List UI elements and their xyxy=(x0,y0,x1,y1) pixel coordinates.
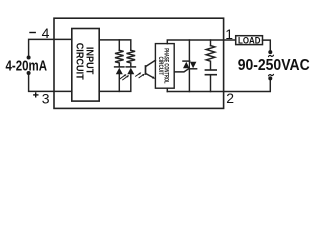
svg-text:CIRCUIT: CIRCUIT xyxy=(157,57,163,76)
svg-text:4-20mA: 4-20mA xyxy=(6,58,48,75)
svg-text:4: 4 xyxy=(42,25,50,41)
svg-text:1: 1 xyxy=(225,26,233,42)
svg-text:2: 2 xyxy=(226,90,234,106)
svg-text:3: 3 xyxy=(42,90,50,106)
svg-text:CIRCUIT: CIRCUIT xyxy=(73,43,84,80)
svg-text:LOAD: LOAD xyxy=(238,35,261,45)
svg-text:90-250VAC: 90-250VAC xyxy=(238,57,310,74)
